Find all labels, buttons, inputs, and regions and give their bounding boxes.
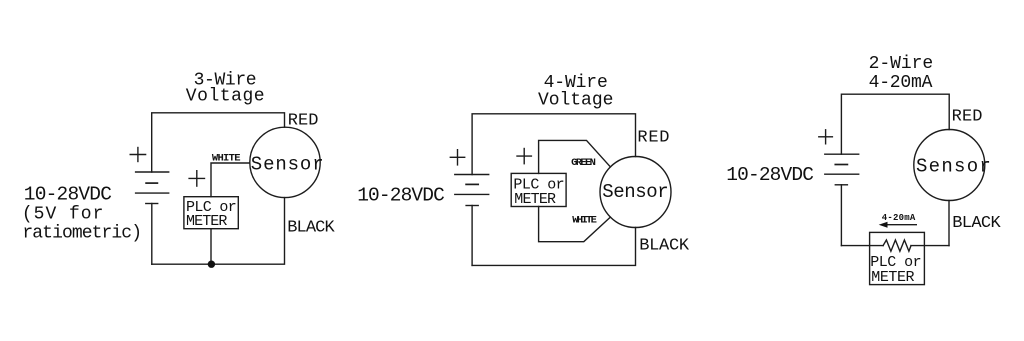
svg-text:10-28VDC: 10-28VDC — [726, 164, 814, 186]
svg-text:RED: RED — [288, 111, 319, 130]
svg-text:METER: METER — [186, 213, 227, 230]
svg-text:GREEN: GREEN — [571, 157, 596, 169]
svg-text:10-28VDC: 10-28VDC — [357, 185, 445, 207]
svg-text:(5V for: (5V for — [22, 204, 104, 224]
svg-text:RED: RED — [637, 128, 669, 147]
svg-text:Sensor: Sensor — [251, 153, 324, 175]
svg-text:4-20mA: 4-20mA — [869, 73, 933, 93]
svg-text:Voltage: Voltage — [186, 86, 265, 106]
svg-text:Voltage: Voltage — [538, 90, 613, 110]
svg-text:10-28VDC: 10-28VDC — [24, 183, 112, 205]
svg-text:BLACK: BLACK — [952, 214, 1001, 233]
svg-text:ratiometric): ratiometric) — [22, 223, 142, 243]
svg-text:Sensor: Sensor — [916, 155, 991, 177]
svg-text:WHITE: WHITE — [572, 215, 597, 227]
svg-text:4-20mA: 4-20mA — [882, 213, 916, 223]
svg-text:2-Wire: 2-Wire — [869, 54, 934, 74]
svg-text:Sensor: Sensor — [602, 181, 669, 203]
svg-text:RED: RED — [952, 108, 983, 127]
svg-text:BLACK: BLACK — [287, 219, 335, 238]
svg-text:METER: METER — [871, 269, 914, 286]
svg-text:WHITE: WHITE — [212, 152, 241, 164]
svg-text:METER: METER — [514, 191, 556, 208]
svg-text:BLACK: BLACK — [639, 237, 690, 256]
